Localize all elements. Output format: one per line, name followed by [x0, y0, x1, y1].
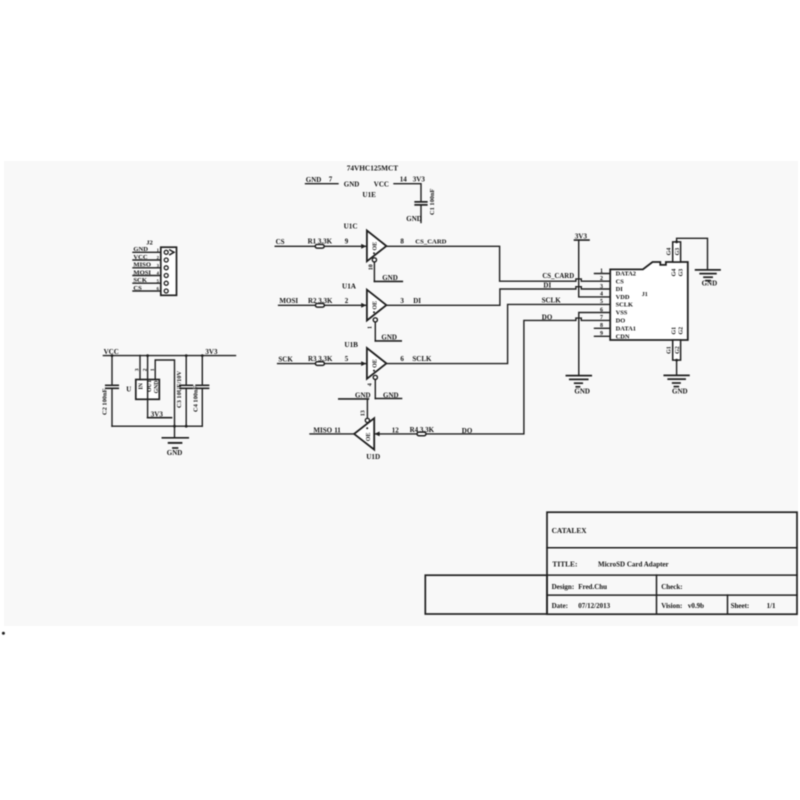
wire U1A output DI — [386, 287, 610, 306]
svg-text:1/1: 1/1 — [767, 602, 776, 610]
wire J2 pin 5 — [133, 282, 161, 284]
svg-text:DI: DI — [543, 281, 551, 289]
svg-text:VCC: VCC — [133, 254, 148, 261]
wire J2 pin 6 — [133, 290, 161, 292]
input arrow U1B — [361, 361, 366, 366]
svg-text:GND: GND — [382, 274, 398, 282]
svg-text:SCLK: SCLK — [542, 297, 562, 305]
svg-text:GND: GND — [383, 391, 399, 399]
VCC rail — [103, 355, 140, 357]
svg-text:U1B: U1B — [344, 341, 358, 349]
title block vertical divider 2 — [727, 595, 729, 614]
wire 3V3 to VDD pin 4 — [579, 240, 611, 297]
wire U1C enable to GND — [373, 262, 375, 281]
svg-text:Check:: Check: — [661, 583, 682, 591]
svg-text:GND: GND — [406, 215, 422, 223]
svg-text:DI: DI — [413, 297, 421, 305]
svg-text:12: 12 — [392, 426, 400, 434]
OE dot U1C — [373, 252, 375, 254]
svg-text:GND: GND — [133, 246, 148, 253]
enable bubble U1A — [373, 318, 377, 322]
title block divider row2 — [547, 574, 797, 576]
svg-text:G4: G4 — [667, 248, 673, 256]
GND bar U1D — [339, 398, 369, 400]
svg-text:VSS: VSS — [616, 310, 628, 317]
svg-text:1: 1 — [150, 368, 156, 371]
capacitor C2 — [111, 356, 113, 385]
svg-text:8: 8 — [400, 237, 404, 245]
svg-text:R1 3.3K: R1 3.3K — [308, 238, 333, 246]
wire top block to GND — [677, 238, 708, 269]
svg-text:MISO: MISO — [133, 262, 151, 269]
svg-text:CDN: CDN — [616, 333, 630, 340]
svg-text:OE: OE — [373, 301, 379, 310]
J2 body — [161, 247, 177, 295]
title block divider row3 — [547, 594, 797, 596]
ground symbol regulator — [162, 437, 188, 439]
junction dot OUT/rail — [146, 354, 149, 357]
wire U1D input DO — [374, 318, 610, 434]
resistor R1 — [315, 245, 324, 249]
top ground pin block — [673, 242, 681, 262]
input arrow U1A — [361, 303, 366, 308]
svg-text:DO: DO — [462, 427, 473, 435]
svg-text:7: 7 — [600, 315, 603, 321]
OE dot U1A — [373, 311, 375, 313]
wire U1C output CS_CARD — [386, 246, 610, 281]
wire U1B enable to GND — [374, 380, 376, 399]
pin 1 arrow — [170, 250, 174, 255]
resistor R4 — [417, 432, 426, 436]
junction dot bottom block — [675, 359, 678, 362]
svg-text:U1C: U1C — [344, 223, 358, 231]
wire VSS pin 6 to GND — [579, 313, 610, 376]
GND bar U1B — [375, 398, 401, 400]
svg-text:GND: GND — [355, 391, 371, 399]
wire U1D enable to GND — [366, 399, 368, 418]
svg-text:13: 13 — [360, 410, 366, 416]
ground symbol below J1 left — [566, 375, 591, 377]
svg-text:3: 3 — [400, 297, 404, 305]
OE dot U1B — [373, 370, 375, 372]
junction dot C3 bottom — [185, 425, 188, 428]
svg-text:GND: GND — [344, 180, 360, 188]
3V3 bar — [575, 239, 590, 241]
J2 pin circles — [164, 250, 168, 254]
pin 9 stub — [595, 335, 611, 337]
GND bar U1A — [375, 340, 401, 342]
svg-text:7: 7 — [329, 176, 333, 184]
junction dot C4 top — [201, 354, 204, 357]
wire to ground symbol — [174, 426, 176, 437]
svg-text:GND: GND — [154, 381, 160, 394]
junction dot gnd drop — [173, 425, 176, 428]
svg-text:2: 2 — [142, 368, 148, 371]
wire MISO output — [310, 433, 354, 435]
svg-text:OUT: OUT — [147, 379, 153, 392]
svg-text:4: 4 — [368, 383, 374, 386]
svg-text:2: 2 — [345, 297, 349, 305]
title block vertical divider 1 — [656, 575, 658, 614]
svg-text:Vision:: Vision: — [661, 602, 682, 610]
svg-text:DI: DI — [616, 286, 624, 293]
svg-text:DO: DO — [542, 314, 553, 322]
svg-text:Date:: Date: — [552, 602, 568, 610]
svg-text:J1: J1 — [642, 292, 648, 298]
svg-text:SCK: SCK — [278, 355, 293, 363]
wire J2 pin 1 — [133, 251, 161, 253]
pin 1 wire GND up and over to ground rail — [155, 360, 174, 426]
wire U1A enable to GND — [374, 322, 376, 341]
wire U1B output SCLK — [386, 304, 610, 363]
svg-text:GND: GND — [702, 280, 718, 288]
enable bubble U1B — [373, 375, 377, 379]
pin 8 stub — [595, 327, 611, 329]
junction dot C3 top — [185, 354, 188, 357]
svg-text:G1: G1 — [671, 327, 677, 335]
svg-text:GND: GND — [381, 334, 397, 342]
scan background — [4, 161, 798, 626]
svg-text:CS: CS — [133, 285, 142, 292]
svg-text:IN: IN — [138, 382, 144, 389]
svg-text:9: 9 — [345, 237, 349, 245]
svg-text:GND: GND — [167, 449, 183, 457]
svg-text:VCC: VCC — [374, 180, 389, 188]
svg-text:VDD: VDD — [616, 294, 630, 301]
input arrow U1D — [374, 432, 379, 437]
svg-text:Design:: Design: — [552, 583, 575, 591]
svg-text:CS: CS — [616, 278, 625, 285]
svg-text:CATALEX: CATALEX — [552, 526, 588, 535]
svg-text:SCLK: SCLK — [616, 302, 633, 309]
svg-text:C4 100nF: C4 100nF — [193, 385, 200, 412]
wire bottom block to GND — [676, 360, 678, 375]
svg-text:2: 2 — [600, 276, 603, 282]
pin 2 wire OUT through box to 3V3 — [147, 356, 149, 418]
buffer U1B triangle — [367, 348, 387, 379]
svg-text:74VHC125MCT: 74VHC125MCT — [347, 164, 399, 173]
wire J2 pin 4 — [133, 275, 161, 277]
buffer U1A triangle — [367, 290, 387, 321]
resistor R2 — [315, 304, 324, 308]
svg-text:G4: G4 — [671, 269, 677, 277]
svg-text:C1 100nF: C1 100nF — [429, 188, 436, 215]
bottom ground pin block — [673, 340, 681, 360]
svg-text:CS_CARD: CS_CARD — [542, 273, 574, 280]
enable bubble U1C — [372, 258, 376, 262]
svg-text:DATA2: DATA2 — [616, 271, 636, 278]
svg-text:G2: G2 — [679, 327, 685, 335]
pin 3 wire IN — [139, 356, 141, 380]
buffer U1D triangle mirrored — [354, 418, 374, 449]
svg-text:3: 3 — [135, 368, 141, 371]
svg-text:14: 14 — [400, 176, 408, 184]
svg-text:MicroSD Card Adapter: MicroSD Card Adapter — [598, 560, 669, 568]
svg-text:SCK: SCK — [133, 277, 147, 284]
wire VCC pin to C1 — [394, 184, 421, 201]
svg-text:CS_CARD: CS_CARD — [415, 238, 446, 245]
svg-text:3: 3 — [600, 284, 603, 290]
ground rail bottom — [112, 425, 202, 427]
svg-text:4: 4 — [600, 292, 603, 298]
svg-text:TITLE:: TITLE: — [552, 559, 577, 568]
svg-text:OE: OE — [373, 359, 379, 368]
svg-text:C3 10UF/10V: C3 10UF/10V — [176, 371, 183, 408]
title block left annex box — [425, 575, 547, 614]
svg-text:DATA1: DATA1 — [616, 325, 636, 332]
svg-text:6: 6 — [600, 307, 603, 313]
svg-text:3V3: 3V3 — [413, 176, 426, 184]
svg-text:07/12/2013: 07/12/2013 — [578, 602, 610, 610]
svg-text:MOSI: MOSI — [279, 297, 298, 305]
capacitor C3 — [185, 356, 187, 385]
svg-text:G3: G3 — [679, 269, 685, 277]
regulator U box — [136, 380, 160, 400]
wire MOSI input — [279, 304, 367, 306]
svg-text:U1E: U1E — [362, 191, 376, 199]
svg-text:U1A: U1A — [342, 283, 357, 291]
input arrow U1C — [361, 244, 366, 249]
capacitor C1 plates — [415, 202, 427, 205]
svg-text:Sheet:: Sheet: — [731, 602, 750, 610]
svg-text:G1: G1 — [667, 346, 673, 354]
svg-text:OE: OE — [373, 242, 379, 251]
junction dot VCC/C2 — [111, 354, 114, 357]
svg-text:Fred.Chu: Fred.Chu — [578, 583, 607, 591]
svg-text:MOSI: MOSI — [133, 269, 151, 276]
buffer U1C triangle — [367, 231, 387, 262]
wire J2 pin 2 — [133, 259, 161, 261]
3V3 rail — [140, 355, 236, 357]
svg-text:GND: GND — [574, 387, 590, 395]
svg-text:5: 5 — [345, 355, 349, 363]
resistor R3 — [315, 362, 324, 366]
wire C1 to GND — [420, 206, 422, 223]
svg-text:3V3: 3V3 — [205, 348, 218, 356]
svg-text:1: 1 — [600, 268, 603, 274]
wire J2 pin 3 — [133, 267, 161, 269]
svg-text:R3 3.3K: R3 3.3K — [308, 355, 333, 363]
svg-text:SCLK: SCLK — [412, 355, 432, 363]
wire CS input — [275, 245, 367, 247]
junction dot top block — [675, 241, 678, 244]
GND bar U1C — [374, 280, 402, 282]
stray dot artifact left edge — [2, 632, 5, 635]
title block outer box — [547, 512, 797, 614]
svg-text:1: 1 — [368, 326, 374, 329]
ground symbol right of J1 — [696, 269, 720, 271]
capacitor C4 — [201, 356, 203, 385]
svg-text:GND: GND — [672, 388, 688, 396]
svg-text:8: 8 — [600, 323, 603, 329]
svg-text:U1D: U1D — [366, 453, 380, 461]
title block divider row1 — [547, 547, 797, 549]
svg-text:G2: G2 — [675, 346, 681, 354]
svg-text:DO: DO — [616, 318, 626, 325]
svg-text:R4 3.3K: R4 3.3K — [410, 426, 435, 434]
svg-text:U: U — [126, 385, 131, 393]
svg-text:6: 6 — [400, 355, 404, 363]
svg-text:5: 5 — [600, 299, 603, 305]
pin 1 stub — [595, 273, 611, 275]
OE dot U1D — [366, 427, 368, 429]
svg-text:9: 9 — [600, 331, 603, 337]
svg-text:G3: G3 — [675, 248, 681, 256]
J1 body outline with card notch — [610, 262, 688, 340]
svg-text:OE: OE — [366, 433, 372, 442]
svg-text:CS: CS — [276, 238, 285, 246]
wire pin 7 stub — [306, 183, 339, 185]
svg-text:v0.9b: v0.9b — [688, 602, 704, 610]
wire SCK input — [278, 363, 367, 365]
enable bubble U1D — [365, 418, 369, 422]
svg-text:R2 3.3K: R2 3.3K — [308, 297, 333, 305]
svg-text:C2 100nF: C2 100nF — [101, 388, 108, 415]
ground symbol below J1 right — [664, 374, 689, 376]
